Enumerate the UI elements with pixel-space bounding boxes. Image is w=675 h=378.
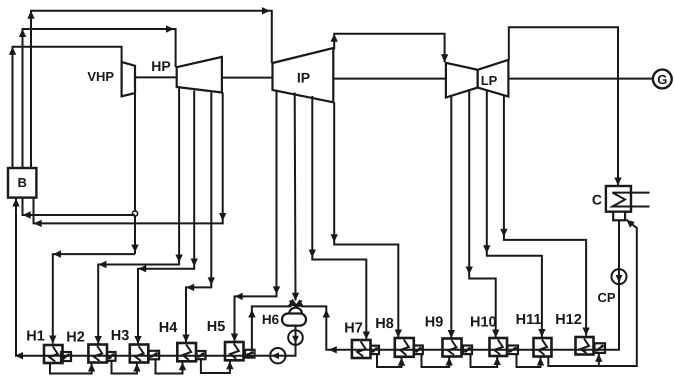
wire VHP exhaust down <box>134 93 136 254</box>
drain cooler H8 <box>414 346 423 355</box>
heater H5 <box>207 319 244 360</box>
wire cold reheat 1 to B <box>23 198 136 219</box>
wire LP extraction 2 to H10 <box>466 90 500 337</box>
wire hot reheat 1 B to HP <box>19 25 176 168</box>
wire HP extraction 3 to H4 <box>182 91 215 343</box>
wire CP to condensate line <box>605 284 619 350</box>
svg-text:H1: H1 <box>26 329 45 345</box>
wire drain H11 to H12 and condenser <box>548 220 637 366</box>
wire VHP extraction to H1 <box>49 245 139 344</box>
drain cooler H7 <box>371 346 380 354</box>
wire drain branch into H12 cooler <box>595 354 602 366</box>
svg-text:B: B <box>18 175 27 190</box>
heater H8 <box>375 316 414 357</box>
svg-text:VHP: VHP <box>87 69 114 84</box>
wire shaft HP-IP <box>222 77 273 79</box>
heater H4 <box>159 320 196 361</box>
wire drain H9 to H10 <box>471 354 501 367</box>
wire HP extraction 2 to H3 <box>134 91 198 345</box>
svg-text:G: G <box>657 72 667 87</box>
wire shaft IP-LP <box>333 78 446 80</box>
wire deaerator to booster pump <box>295 326 297 331</box>
heater H2 <box>66 330 107 363</box>
heater H1 <box>26 329 62 364</box>
svg-text:H4: H4 <box>159 320 178 336</box>
svg-text:H11: H11 <box>516 312 542 328</box>
drain cooler H4 <box>197 351 206 359</box>
svg-text:H10: H10 <box>470 315 497 331</box>
wire shaft LP-generator <box>508 78 653 80</box>
wire drain H8 to H9 <box>422 354 453 367</box>
turbine VHP <box>87 62 135 96</box>
svg-text:H6: H6 <box>262 312 280 327</box>
heater H3 <box>111 328 149 363</box>
svg-text:HP: HP <box>151 58 170 74</box>
svg-text:H9: H9 <box>425 315 444 331</box>
wire H5 drain to deaerator <box>248 299 298 350</box>
heater H11 <box>516 312 552 357</box>
heater H7 <box>344 321 370 359</box>
wire HP extraction 1 to H2 <box>95 87 183 344</box>
pump boiler feed <box>270 348 285 363</box>
node VHP exhaust junction <box>132 211 137 216</box>
drain cooler H1 <box>61 352 71 361</box>
wire IP extraction 3 to H7 <box>309 96 370 340</box>
wire IP exhaust extraction to H8 <box>331 102 403 337</box>
wire HP exhaust cold reheat 2 to B <box>34 93 227 228</box>
wire LP extraction 3 to H11 <box>483 91 545 338</box>
wire feedwater line to boiler <box>12 199 254 360</box>
wire drain H2 to H3 <box>112 361 141 374</box>
wire hot reheat 2 B to IP <box>27 7 271 168</box>
turbine LP double flow <box>446 60 509 98</box>
wire LP exhaust to condenser <box>509 27 622 185</box>
svg-text:H7: H7 <box>344 321 363 337</box>
wire IP extraction 1 to H5 <box>231 91 280 342</box>
drain cooler H9 <box>463 346 472 355</box>
turbine IP <box>273 48 334 102</box>
wire booster pump to feed line <box>286 345 296 356</box>
drain cooler H5 <box>245 350 255 358</box>
svg-text:CP: CP <box>597 290 615 305</box>
wire IP extraction 2 to H6 deaerator <box>292 93 299 301</box>
condenser C <box>592 186 650 212</box>
svg-text:LP: LP <box>481 73 498 88</box>
heater H9 <box>425 315 462 357</box>
wire LP extraction 4 to H12 <box>500 95 590 335</box>
drain cooler H3 <box>149 351 160 360</box>
svg-text:IP: IP <box>297 70 310 86</box>
condenser hotwell <box>613 212 625 221</box>
heater H12 <box>555 312 593 355</box>
turbine HP <box>151 57 222 93</box>
boiler B <box>8 168 36 198</box>
wire hotwell to CP <box>618 220 620 269</box>
wire drain H7 to H8 <box>377 354 405 367</box>
generator G <box>653 70 672 89</box>
svg-text:C: C <box>592 192 602 208</box>
drain cooler H12 <box>595 343 606 353</box>
svg-text:H5: H5 <box>207 319 226 335</box>
wire LP extraction 1 to H9 <box>448 96 455 338</box>
heater H10 <box>470 315 507 357</box>
pump CP <box>597 269 626 305</box>
wire main steam B to VHP <box>9 47 122 168</box>
wire crossover IP to LP <box>331 34 449 63</box>
drain cooler H10 <box>508 346 519 355</box>
pump booster <box>288 330 303 345</box>
wire shaft VHP-HP <box>135 76 177 78</box>
svg-text:H2: H2 <box>66 330 85 346</box>
wire drain H3 to H4 <box>156 359 187 373</box>
wire drain H10 to H11 <box>517 354 545 367</box>
wire drain H4 to H5 <box>201 359 234 373</box>
svg-text:H3: H3 <box>111 328 130 344</box>
svg-text:H12: H12 <box>555 312 582 328</box>
wire feed pump to H5 <box>255 355 271 357</box>
svg-text:H8: H8 <box>375 316 394 332</box>
heater H6 deaerator <box>262 308 306 327</box>
wire condensate line to deaerator <box>294 299 605 353</box>
drain cooler H2 <box>107 352 116 361</box>
wire drain H1 to H2 <box>50 363 95 374</box>
